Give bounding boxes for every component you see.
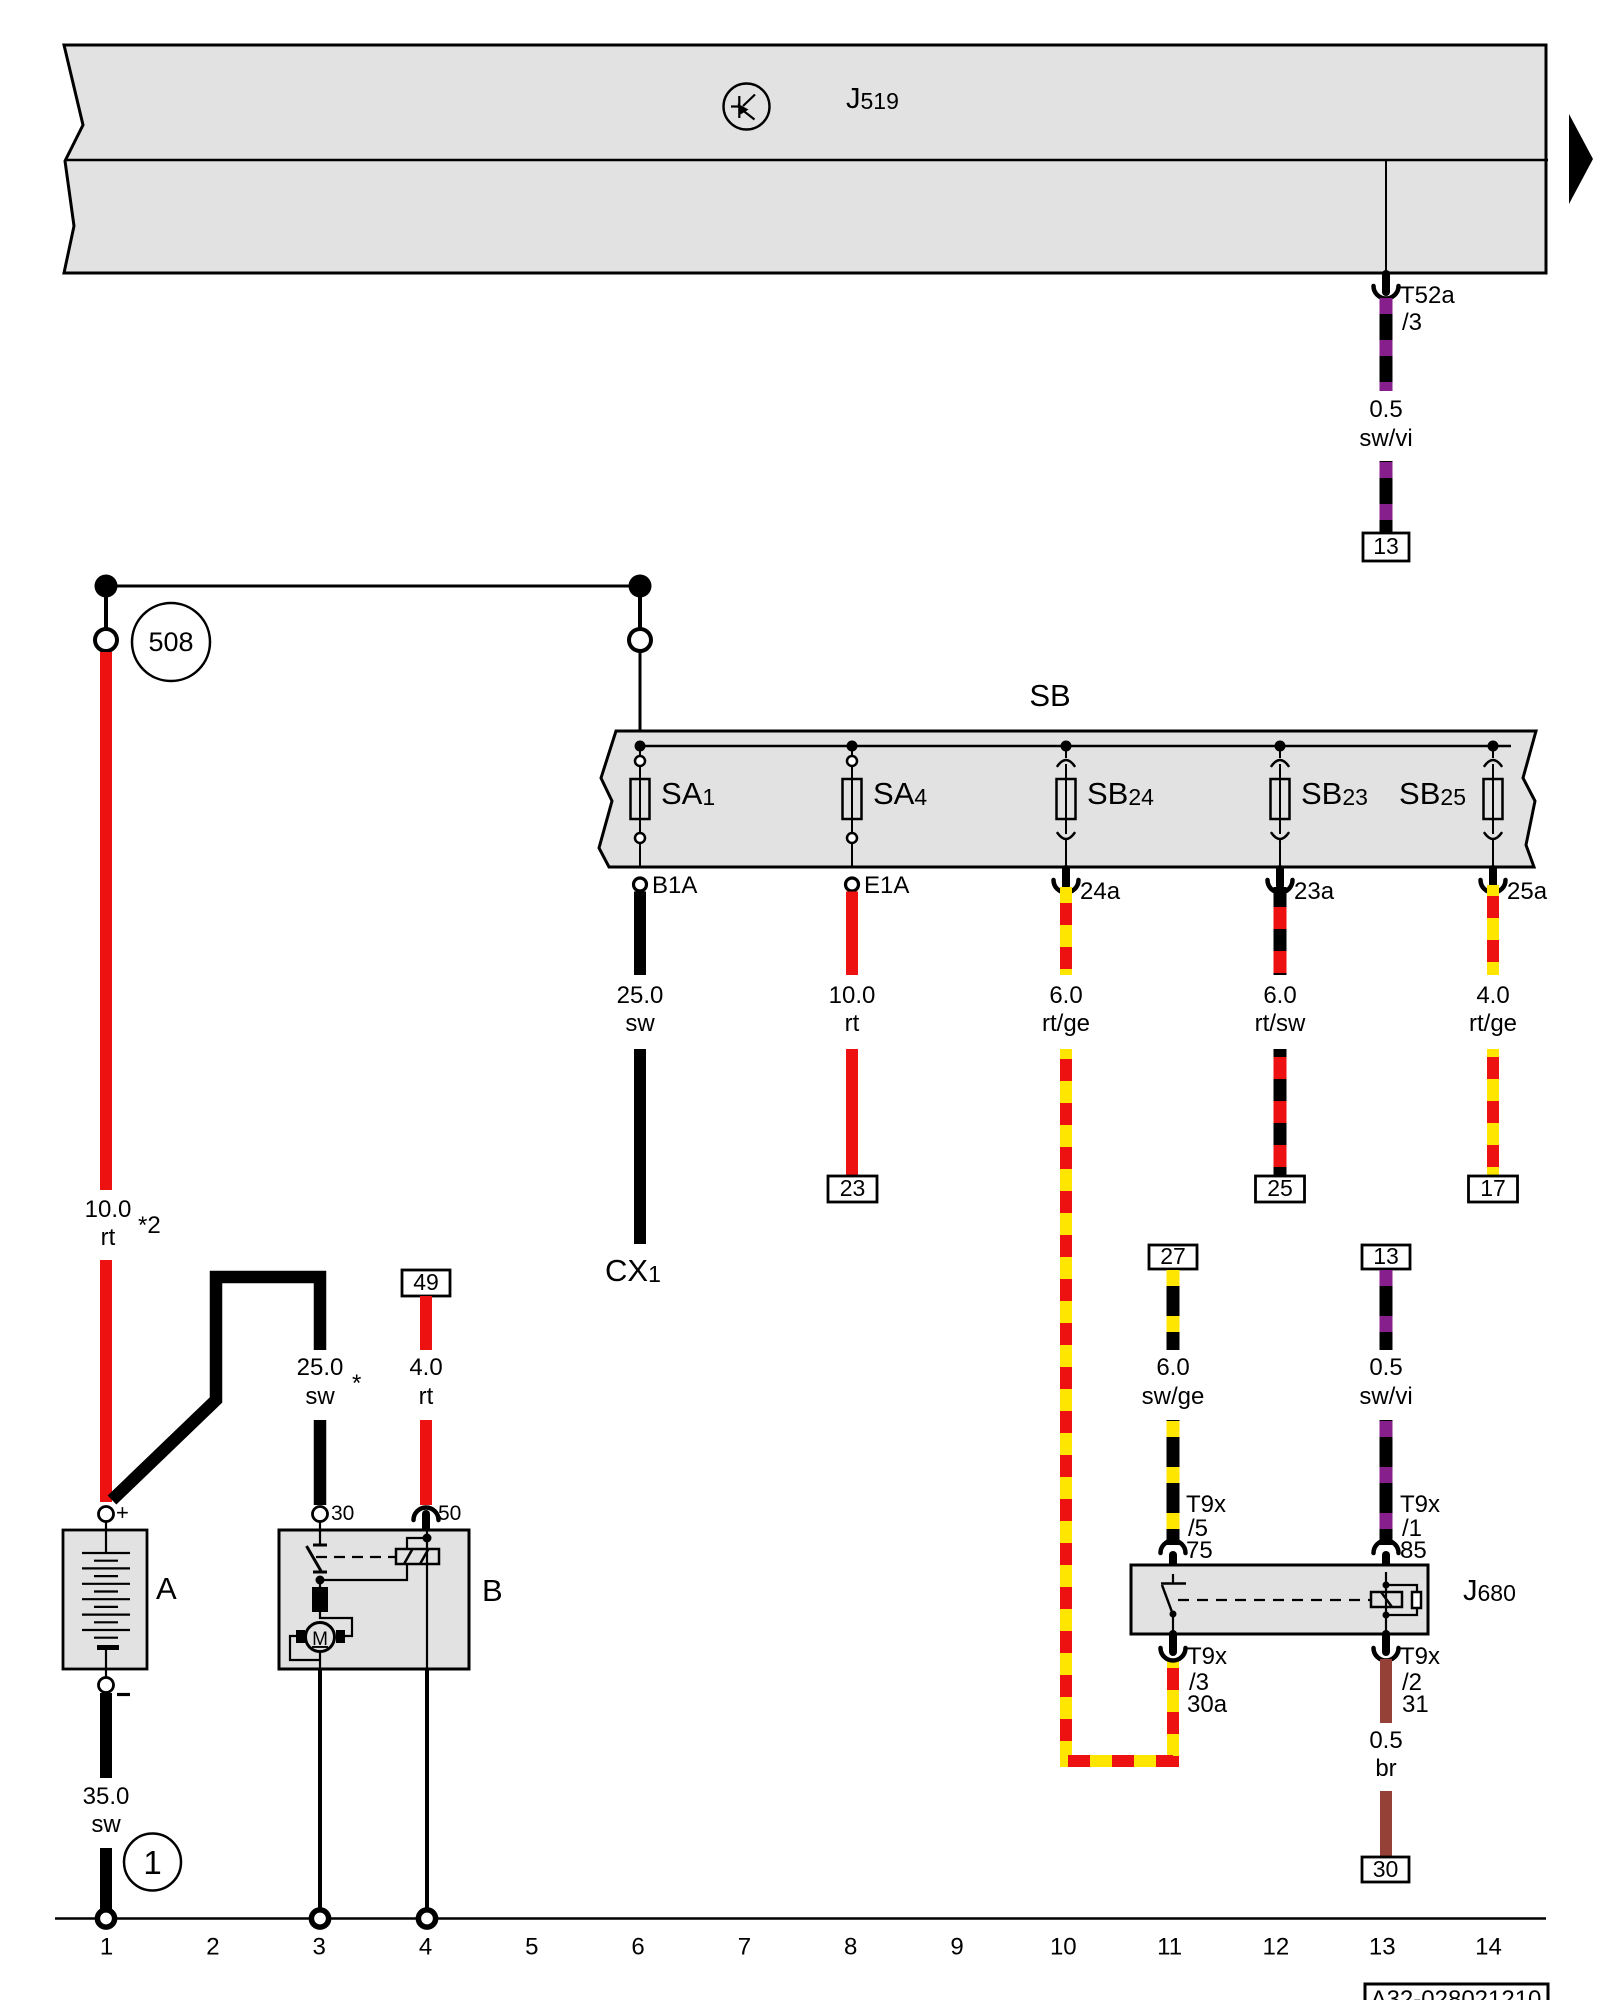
fuse SB23: [1271, 741, 1368, 868]
wire 6.0 rt/sw lower segment: [1274, 1049, 1287, 1176]
column numbers 1-14: [100, 1934, 1502, 1961]
interior light symbol (circled K arrow): [724, 84, 770, 130]
battery A terminal - ring: [99, 1678, 114, 1693]
svg-text:10.0: 10.0: [85, 1196, 132, 1223]
svg-text:5: 5: [525, 1934, 538, 1961]
relay J680 coil winding: [1371, 1592, 1402, 1607]
connector 24a pin: [1062, 869, 1070, 886]
ground 1: [97, 1910, 114, 1927]
terminal 50 pin: [422, 1514, 430, 1528]
motor brush left: [296, 1630, 305, 1643]
fuse SB24: [1057, 741, 1155, 868]
fuse SA4: [843, 741, 928, 868]
wire 35.0 sw upper segment: [100, 1693, 112, 1778]
svg-text:6.0: 6.0: [1156, 1354, 1189, 1381]
svg-text:1: 1: [143, 1844, 161, 1881]
connector E1A: [846, 878, 859, 891]
control unit J519 (body control module band): [64, 45, 1546, 273]
wire 0.5 sw/vi lower segment (to 85): [1380, 1420, 1393, 1545]
svg-text:17: 17: [1480, 1175, 1506, 1201]
fuse panel SB band: [599, 731, 1536, 867]
svg-text:13: 13: [1369, 1934, 1396, 1961]
connector T9x/2 pin (31): [1382, 1634, 1390, 1652]
svg-text:A: A: [156, 1571, 177, 1606]
battery A box: [63, 1530, 147, 1669]
svg-text:T9x: T9x: [1187, 1643, 1227, 1670]
coil line to ground 4: [426, 1528, 428, 1669]
terminal 50 socket: [414, 1508, 439, 1521]
svg-text:rt: rt: [419, 1383, 434, 1410]
svg-text:23a: 23a: [1294, 878, 1335, 905]
wire 6.0 sw/ge lower segment: [1167, 1420, 1180, 1545]
motor brush right: [336, 1630, 345, 1643]
connection point label 508: [132, 603, 210, 681]
connector T52a/3 pin: [1382, 274, 1390, 292]
starter B switch: [307, 1522, 328, 1572]
wire 4.0 rt from 49 upper segment: [420, 1296, 432, 1350]
connector T9x/5 pin (75): [1169, 1555, 1177, 1572]
connector 25a socket: [1481, 880, 1506, 893]
svg-text:6.0: 6.0: [1263, 982, 1296, 1009]
wire 0.5 br upper segment: [1380, 1659, 1392, 1723]
wire 25.0 sw from B1A upper segment: [634, 892, 646, 976]
svg-text:A32-028021210: A32-028021210: [1371, 1986, 1542, 2000]
svg-text:8: 8: [844, 1934, 857, 1961]
connector 25a pin: [1489, 869, 1497, 886]
connector T9x/1 socket (85): [1374, 1541, 1399, 1554]
starter series resistor: [312, 1587, 328, 1612]
svg-text:rt: rt: [101, 1224, 116, 1251]
svg-text:rt/ge: rt/ge: [1469, 1010, 1517, 1037]
terminal box 25: [1256, 1176, 1305, 1202]
svg-text:J680: J680: [1463, 1575, 1516, 1607]
wire 0.5 br to terminal 30 box: [1380, 1791, 1392, 1857]
connector T9x/3 socket (30a): [1161, 1648, 1186, 1661]
svg-text:9: 9: [950, 1934, 963, 1961]
starter B actuation dashed link: [316, 1556, 396, 1558]
resistor to motor link: [320, 1612, 352, 1636]
svg-text:30: 30: [1373, 1856, 1399, 1882]
stub to SB feed: [638, 595, 642, 629]
J519 band divider line: [65, 159, 1548, 162]
wire 25.0 sw battery to starter (bend): [112, 1277, 320, 1500]
svg-text:75: 75: [1186, 1537, 1213, 1564]
wire 4.0 rt to terminal 50: [420, 1420, 432, 1505]
svg-text:25.0: 25.0: [297, 1354, 344, 1381]
junction dot at 50 feed: [423, 1534, 432, 1543]
stub to connector 508 side: [104, 595, 108, 629]
svg-text:0.5: 0.5: [1369, 396, 1402, 423]
junction dot left (terminal 30 bus): [95, 575, 118, 598]
svg-text:25a: 25a: [1507, 878, 1548, 905]
connector 23a pin: [1276, 869, 1284, 886]
ground 4: [418, 1910, 435, 1927]
connector T52a/3 socket: [1374, 286, 1399, 299]
starter B switch junction dot: [316, 1576, 325, 1585]
wire 30-bus horizontal: [106, 585, 640, 588]
coil top hook to 50: [407, 1538, 427, 1549]
wire 4.0 rt/ge from 25a upper segment: [1487, 885, 1499, 975]
wire 25.0 sw to terminal 30: [314, 1420, 327, 1505]
J680 coil feed line 85-31: [1385, 1572, 1387, 1634]
wire 0.5 sw/vi upper segment: [1380, 297, 1393, 391]
terminal box 13 (lower): [1362, 1245, 1410, 1269]
svg-text:0.5: 0.5: [1369, 1354, 1402, 1381]
svg-text:SB: SB: [1029, 678, 1070, 713]
J680 parallel resistor: [1412, 1592, 1421, 1608]
svg-text:7: 7: [738, 1934, 751, 1961]
svg-text:rt: rt: [845, 1010, 860, 1037]
svg-text:4: 4: [419, 1934, 432, 1961]
svg-text:25: 25: [1267, 1175, 1293, 1201]
J680 switch contact: [1161, 1574, 1186, 1612]
svg-text:rt/sw: rt/sw: [1255, 1010, 1306, 1037]
connector T9x/1 pin (85): [1382, 1555, 1390, 1572]
terminal box 23: [828, 1176, 877, 1202]
svg-text:25.0: 25.0: [617, 982, 664, 1009]
svg-text:4.0: 4.0: [1476, 982, 1509, 1009]
fuse SA1: [631, 741, 716, 868]
svg-text:508: 508: [148, 627, 193, 657]
starter relay coil (solenoid winding): [396, 1549, 439, 1564]
connector T9x/5 socket (75): [1161, 1541, 1186, 1554]
battery A internal plates: [82, 1521, 130, 1638]
svg-text:13: 13: [1373, 533, 1399, 559]
svg-text:14: 14: [1475, 1934, 1502, 1961]
junction dot right (terminal 30 bus): [629, 575, 652, 598]
connector 23a socket: [1268, 880, 1293, 893]
svg-text:3: 3: [313, 1934, 326, 1961]
J680 parallel resistor bracket: [1386, 1585, 1417, 1615]
SB internal bus line: [640, 745, 1511, 748]
wire 6.0 sw/ge upper segment: [1167, 1269, 1180, 1350]
ground location label 1: [124, 1834, 181, 1891]
wire 10.0 rt from E1A upper segment: [846, 892, 858, 976]
svg-text:13: 13: [1373, 1243, 1399, 1269]
terminal 30 ring: [313, 1507, 328, 1522]
wire 10.0 rt from E1A lower segment: [846, 1049, 858, 1176]
svg-text:B1A: B1A: [652, 872, 697, 899]
J680 actuation dashed link: [1178, 1599, 1371, 1601]
svg-text:sw: sw: [625, 1010, 655, 1037]
J680 coil junction dot bottom: [1383, 1612, 1390, 1619]
connector B1A: [634, 878, 647, 891]
svg-text:11: 11: [1157, 1934, 1182, 1961]
svg-text:10: 10: [1050, 1934, 1077, 1961]
svg-text:24a: 24a: [1080, 878, 1121, 905]
svg-text:+: +: [116, 1500, 129, 1525]
svg-text:10.0: 10.0: [829, 982, 876, 1009]
svg-text:4.0: 4.0: [409, 1354, 442, 1381]
svg-text:sw/vi: sw/vi: [1359, 425, 1412, 452]
terminal box 17: [1469, 1176, 1518, 1202]
connector ring right: [629, 629, 651, 651]
wire 35.0 sw to ground 1: [100, 1848, 112, 1909]
svg-text:1: 1: [100, 1934, 113, 1961]
wire 6.0 rt/sw from 23a upper segment: [1274, 887, 1287, 975]
feed wire to fuse panel SB: [639, 652, 642, 731]
svg-text:85: 85: [1400, 1537, 1427, 1564]
ground 3: [311, 1910, 328, 1927]
svg-text:T9x: T9x: [1186, 1491, 1226, 1518]
diagram number box A32-028021210: [1365, 1984, 1548, 2000]
terminal box 27: [1149, 1245, 1197, 1269]
terminal box 49: [402, 1270, 450, 1296]
svg-text:sw/ge: sw/ge: [1142, 1383, 1205, 1410]
svg-text:br: br: [1375, 1755, 1396, 1782]
svg-text:J519: J519: [846, 83, 899, 115]
wire 4.0 rt/ge lower segment: [1487, 1049, 1499, 1176]
J680 coil junction dot top: [1383, 1582, 1390, 1589]
svg-text:E1A: E1A: [864, 872, 909, 899]
connector T9x/3 pin (30a): [1169, 1634, 1177, 1652]
svg-text:B: B: [482, 1573, 503, 1608]
svg-text:31: 31: [1402, 1691, 1429, 1718]
wire 0.5 sw/vi upper segment (to 85): [1380, 1269, 1393, 1350]
svg-text:50: 50: [438, 1502, 461, 1525]
svg-text:27: 27: [1160, 1243, 1186, 1269]
wire 6.0 rt/ge from 24a upper segment: [1060, 887, 1072, 975]
terminal box 30: [1362, 1857, 1409, 1882]
coil bottom hook to switch: [322, 1564, 407, 1580]
svg-text:*: *: [352, 1370, 361, 1397]
starter motor M: [306, 1623, 335, 1652]
battery A terminal + ring: [99, 1507, 114, 1522]
connector ring left: [95, 629, 117, 651]
wire inside J519 to T52a: [1385, 160, 1387, 273]
fuse SB25: [1399, 741, 1502, 868]
svg-text:35.0: 35.0: [83, 1783, 130, 1810]
motor left loop: [290, 1636, 320, 1660]
connector 24a socket: [1054, 880, 1079, 893]
svg-text:49: 49: [413, 1269, 439, 1295]
svg-text:0.5: 0.5: [1369, 1727, 1402, 1754]
direction arrow to next page: [1569, 114, 1593, 204]
svg-text:2: 2: [206, 1934, 219, 1961]
svg-text:T52a: T52a: [1400, 282, 1455, 309]
wire coil to ground 4: [425, 1669, 429, 1909]
terminal box 13 (to fuse 13): [1363, 533, 1409, 561]
svg-text:30a: 30a: [1187, 1691, 1228, 1718]
svg-text:/3: /3: [1402, 309, 1422, 336]
ground rail line: [55, 1917, 1546, 1920]
starter B box: [279, 1530, 469, 1669]
wire 25.0 sw from B1A lower segment: [634, 1049, 646, 1244]
svg-text:M: M: [312, 1629, 328, 1650]
svg-text:*2: *2: [138, 1212, 161, 1239]
J680 switch lower dot: [1170, 1611, 1177, 1618]
wire 10.0 rt lower segment: [100, 1260, 112, 1502]
svg-text:sw: sw: [305, 1383, 335, 1410]
connector T9x/2 socket (31): [1374, 1648, 1399, 1661]
svg-text:T9x: T9x: [1400, 1491, 1440, 1518]
svg-text:sw: sw: [91, 1811, 121, 1838]
svg-text:12: 12: [1263, 1934, 1290, 1961]
svg-text:rt/ge: rt/ge: [1042, 1010, 1090, 1037]
motor to box bottom: [319, 1651, 321, 1669]
wire starter motor to ground 3: [318, 1669, 322, 1909]
svg-text:6.0: 6.0: [1049, 982, 1082, 1009]
wire 6.0 rt/ge long run to 30a: [1066, 1049, 1173, 1761]
svg-text:23: 23: [840, 1175, 866, 1201]
svg-text:T9x: T9x: [1400, 1643, 1440, 1670]
wire 10.0 rt upper segment: [100, 652, 112, 1190]
svg-text:30: 30: [331, 1502, 354, 1525]
relay J680 box: [1131, 1565, 1428, 1634]
svg-text:6: 6: [631, 1934, 644, 1961]
svg-text:sw/vi: sw/vi: [1359, 1383, 1412, 1410]
wire 0.5 sw/vi lower segment: [1380, 461, 1393, 533]
